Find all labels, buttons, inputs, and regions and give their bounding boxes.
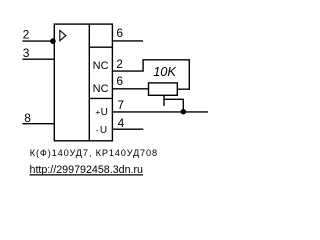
svg-text:NC: NC (93, 83, 109, 95)
svg-text:3: 3 (23, 46, 30, 60)
op-amp U1 body outline (54, 24, 112, 141)
op-amp U1 inner divider (88, 24, 90, 141)
svg-text:6: 6 (116, 26, 123, 40)
wire pin 3 left (22, 58, 54, 60)
svg-text:NC: NC (93, 60, 109, 72)
svg-text:6: 6 (116, 74, 123, 88)
wire pin 2 right to resistor loop (112, 60, 189, 89)
op-amp U1 cell divider top (89, 46, 112, 48)
wire wiper branch (164, 99, 183, 112)
wire pin 4 right (112, 128, 143, 130)
op-amp U1 triangle symbol (60, 30, 66, 40)
svg-text:+U: +U (95, 107, 108, 118)
svg-text:8: 8 (24, 111, 31, 125)
svg-text:4: 4 (118, 116, 125, 130)
svg-text:7: 7 (117, 98, 124, 112)
svg-text:http://299792458.3dn.ru: http://299792458.3dn.ru (30, 164, 144, 176)
wire pin 2 left (22, 40, 54, 42)
svg-text:10K: 10K (153, 64, 176, 79)
resistor R1 body (149, 83, 178, 95)
node junction dot wiper to pin 7 wire (181, 109, 186, 114)
wire pin 7 right (112, 111, 208, 113)
op-amp U1 cell divider bottom (89, 97, 112, 99)
svg-text:-U: -U (96, 125, 107, 136)
svg-text:2: 2 (116, 57, 123, 71)
svg-text:К(Ф)140УД7, КР140УД708: К(Ф)140УД7, КР140УД708 (30, 148, 158, 158)
svg-text:2: 2 (23, 28, 30, 42)
wire pin 6 right to resistor left terminal (112, 88, 148, 90)
wire pin 6 output top right (112, 40, 143, 42)
resistor R1 wiper tap (163, 95, 165, 106)
wire pin 8 left (22, 123, 54, 125)
node junction dot on pin 2 (50, 38, 56, 44)
link underline (30, 174, 144, 176)
